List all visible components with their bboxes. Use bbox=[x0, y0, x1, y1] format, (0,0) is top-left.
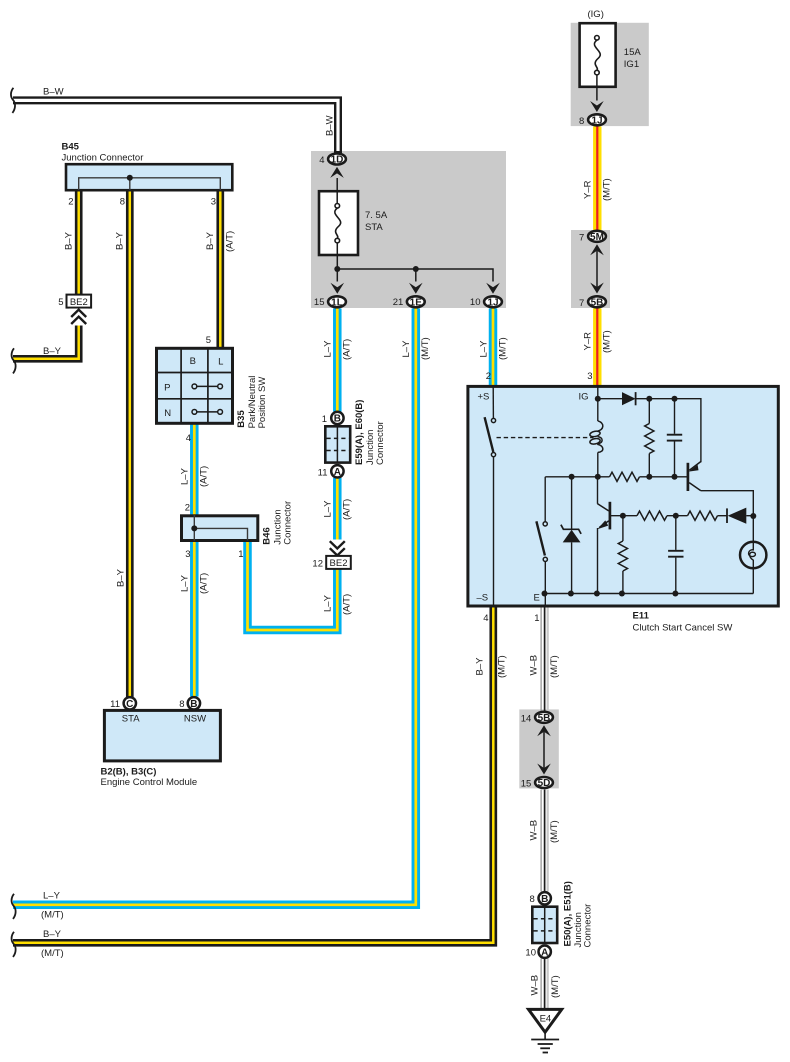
node dot zener bottom bbox=[568, 591, 574, 597]
top rail wire to diode D1 bbox=[598, 398, 622, 400]
connector 1E ellipse bbox=[407, 296, 425, 308]
Q2 collector wire up bbox=[597, 477, 599, 504]
junction dot at fuse output bbox=[334, 266, 340, 272]
ground E4 bbox=[529, 1009, 562, 1039]
svg-text:3: 3 bbox=[185, 549, 190, 560]
wire between R3 and R4 bbox=[667, 515, 688, 517]
connector BE2 pin5 bbox=[67, 295, 92, 308]
connector 1J ellipse bbox=[484, 296, 502, 308]
base rail wire y477 bbox=[545, 476, 609, 478]
svg-text:8: 8 bbox=[530, 894, 535, 905]
B35 contact P row bbox=[192, 384, 223, 389]
node dot C1 bottom bbox=[672, 474, 678, 480]
bottom rail E bbox=[545, 593, 754, 595]
node dot top rail R1 bbox=[646, 396, 652, 402]
svg-text:Engine Control Module: Engine Control Module bbox=[101, 777, 198, 788]
connector 5B ellipse bbox=[588, 296, 606, 308]
junction connector B45 bbox=[66, 164, 232, 190]
svg-text:12: 12 bbox=[312, 558, 323, 569]
svg-text:L–Y: L–Y bbox=[401, 340, 412, 358]
svg-text:A: A bbox=[334, 467, 341, 478]
svg-text:4: 4 bbox=[186, 433, 191, 444]
junction connector B46 bbox=[182, 515, 258, 541]
solid arrow up below 5M bbox=[590, 244, 604, 255]
svg-text:5D: 5D bbox=[538, 778, 551, 789]
svg-text:B–Y: B–Y bbox=[115, 231, 126, 250]
gray background block: IG fuse area bbox=[571, 23, 649, 126]
svg-text:2: 2 bbox=[68, 197, 73, 208]
svg-text:W–B: W–B bbox=[530, 975, 541, 996]
svg-text:Y–R: Y–R bbox=[583, 332, 594, 351]
svg-text:1: 1 bbox=[238, 549, 243, 560]
svg-text:Connector: Connector bbox=[375, 421, 386, 465]
svg-text:(M/T): (M/T) bbox=[549, 820, 560, 843]
wire L-Y(A/T) E59 pinA to BE2 12 chevron bbox=[333, 478, 342, 542]
junction dot inside B45 bbox=[127, 175, 133, 181]
clutch start cancel switch E11 box bbox=[468, 386, 778, 606]
svg-text:B: B bbox=[190, 356, 196, 367]
B46 name label rotated bbox=[261, 501, 293, 545]
svg-text:B–Y: B–Y bbox=[43, 929, 62, 940]
node dot E pin1 bbox=[542, 591, 548, 597]
E11 pin3 IG lead bbox=[597, 386, 599, 399]
B45 name label bbox=[62, 142, 144, 164]
svg-text:1: 1 bbox=[534, 613, 539, 624]
svg-text:2: 2 bbox=[486, 371, 491, 382]
svg-text:8: 8 bbox=[120, 197, 125, 208]
zener diode ZD1 bbox=[561, 477, 581, 594]
svg-text:B–Y: B–Y bbox=[43, 346, 62, 357]
link line 5M to 5B bbox=[596, 251, 598, 287]
svg-text:L: L bbox=[218, 357, 223, 368]
node dot Q2 base bbox=[620, 513, 626, 519]
svg-text:10: 10 bbox=[525, 948, 536, 959]
svg-text:(A/T): (A/T) bbox=[199, 573, 210, 594]
solid arrow down above 5D bbox=[537, 764, 551, 775]
svg-text:W–B: W–B bbox=[529, 655, 540, 676]
node dot C2 bottom bbox=[672, 591, 678, 597]
svg-text:(M/T): (M/T) bbox=[498, 337, 509, 360]
svg-text:IG1: IG1 bbox=[624, 59, 639, 70]
svg-text:(M/T): (M/T) bbox=[602, 330, 613, 353]
node dot Q2 emitter bottom bbox=[594, 591, 600, 597]
-S lead wire bbox=[493, 457, 495, 606]
svg-text:Position SW: Position SW bbox=[257, 377, 268, 429]
svg-text:(IG): (IG) bbox=[588, 9, 604, 20]
svg-text:(M/T): (M/T) bbox=[41, 948, 64, 959]
svg-text:2: 2 bbox=[185, 503, 190, 514]
connector 5B lower ellipse bbox=[535, 712, 553, 724]
E11 name label bbox=[633, 611, 733, 634]
node dot R5 bottom bbox=[619, 591, 625, 597]
svg-text:B46: B46 bbox=[261, 527, 272, 544]
svg-text:10: 10 bbox=[470, 297, 481, 308]
svg-text:8: 8 bbox=[179, 699, 184, 710]
svg-text:C: C bbox=[126, 699, 133, 710]
svg-text:E: E bbox=[534, 593, 540, 604]
svg-text:STA: STA bbox=[122, 714, 140, 725]
svg-text:5B: 5B bbox=[591, 297, 604, 308]
svg-text:(A/T): (A/T) bbox=[199, 466, 210, 487]
svg-text:Connector: Connector bbox=[283, 501, 294, 545]
node dot top rail C1 bbox=[672, 396, 678, 402]
svg-text:15: 15 bbox=[521, 779, 532, 790]
svg-text:Connector: Connector bbox=[583, 904, 594, 948]
svg-text:4: 4 bbox=[483, 613, 488, 624]
svg-text:N: N bbox=[164, 408, 171, 419]
svg-text:B–W: B–W bbox=[325, 115, 336, 136]
relay coil L1 bbox=[589, 399, 602, 477]
svg-text:L–Y: L–Y bbox=[180, 574, 191, 592]
Q2 base rail y516 bbox=[611, 515, 638, 517]
svg-text:(M/T): (M/T) bbox=[549, 655, 560, 678]
svg-text:5B: 5B bbox=[538, 713, 551, 724]
transistor Q1 bbox=[688, 462, 701, 492]
junction connector E50(A),E51(B) bbox=[532, 892, 557, 958]
wire L-Y(A/T) B35 pin4 to B46 pin2 bbox=[190, 424, 199, 516]
svg-text:Junction Connector: Junction Connector bbox=[62, 153, 144, 164]
svg-text:Y–R: Y–R bbox=[583, 180, 594, 199]
connector 1D ellipse bbox=[328, 154, 346, 166]
relay switch SW1 lower contact bbox=[491, 453, 495, 457]
gray background block: 5B/5D connector area bbox=[519, 709, 559, 788]
svg-text:BE2: BE2 bbox=[330, 558, 348, 569]
top rail wire right of D1 bbox=[636, 399, 701, 463]
svg-text:7. 5A: 7. 5A bbox=[365, 210, 388, 221]
node dot C2 top bbox=[673, 513, 679, 519]
ground symbol bars bbox=[531, 1040, 559, 1053]
resistor R3 horizontal bbox=[637, 511, 667, 520]
page-continuation squiggle (B-Y left) bbox=[12, 348, 16, 373]
svg-text:IG: IG bbox=[579, 392, 589, 403]
solid arrow up below 1D bbox=[330, 167, 344, 178]
svg-text:3: 3 bbox=[587, 371, 592, 382]
svg-text:L–Y: L–Y bbox=[479, 340, 490, 358]
svg-text:NSW: NSW bbox=[184, 714, 206, 725]
svg-text:B35: B35 bbox=[236, 410, 247, 428]
E11 pin2 lead bbox=[492, 386, 494, 419]
gray background block: 5M/5B connector area bbox=[571, 230, 610, 308]
svg-text:(A/T): (A/T) bbox=[342, 594, 353, 615]
svg-text:B: B bbox=[334, 414, 341, 425]
resistor R1 horizontal bbox=[610, 472, 640, 481]
junction dot inside B46 bbox=[191, 525, 197, 531]
fuse IG1 value label bbox=[624, 47, 642, 70]
svg-text:E59(A), E60(B): E59(A), E60(B) bbox=[354, 400, 365, 465]
svg-text:B45: B45 bbox=[62, 142, 80, 153]
wire L-Y(A/T) B46 pin3 to ECM pin8 bbox=[190, 541, 199, 697]
svg-text:1E: 1E bbox=[410, 297, 423, 308]
wire B-Y(M/T) E11 pin4 to page-left bbox=[13, 606, 493, 943]
resistor R5 vertical below Q2 base bbox=[618, 516, 627, 594]
svg-text:3: 3 bbox=[211, 197, 216, 208]
clutch switch SW2 bbox=[536, 477, 547, 606]
svg-text:11: 11 bbox=[318, 468, 328, 479]
svg-text:(A/T): (A/T) bbox=[225, 231, 236, 252]
relay switch SW1 blade bbox=[485, 417, 494, 452]
svg-text:15A: 15A bbox=[624, 47, 642, 58]
resistor R2 vertical bbox=[645, 399, 654, 477]
gray background block: STA fuse area bbox=[311, 151, 506, 308]
B35 contact N row bbox=[192, 410, 223, 415]
node dot R2 bottom bbox=[646, 474, 652, 480]
solid arrow down above 1J top bbox=[590, 101, 604, 112]
svg-text:(M/T): (M/T) bbox=[497, 655, 508, 678]
chevron arrow down above BE2 12 bbox=[328, 540, 347, 556]
svg-text:Clutch Start Cancel SW: Clutch Start Cancel SW bbox=[633, 623, 733, 634]
svg-text:5: 5 bbox=[58, 297, 63, 308]
junction connector E59(A),E60(B) bbox=[325, 412, 350, 478]
svg-text:21: 21 bbox=[393, 297, 404, 308]
svg-text:8: 8 bbox=[579, 116, 584, 127]
svg-text:L–Y: L–Y bbox=[180, 467, 191, 485]
svg-text:A: A bbox=[541, 947, 548, 958]
wire W-B(M/T) 5D to E50 pinB bbox=[541, 790, 548, 892]
resistor R4 horizontal bbox=[688, 511, 718, 520]
capacitor C2 bbox=[668, 516, 683, 594]
svg-text:5M: 5M bbox=[590, 232, 604, 243]
svg-text:(M/T): (M/T) bbox=[41, 910, 64, 921]
wire L-Y(M/T) 1J to E11 pin2 bbox=[489, 309, 498, 387]
fuse STA value label bbox=[365, 210, 388, 233]
node dot zener branch bbox=[569, 474, 575, 480]
page-continuation squiggle (B-W) bbox=[11, 88, 15, 113]
svg-text:7: 7 bbox=[579, 298, 584, 309]
connector 5D ellipse bbox=[535, 777, 553, 789]
junction node line under fuse STA bbox=[337, 269, 493, 282]
connector 5M ellipse bbox=[588, 231, 606, 243]
svg-text:W–B: W–B bbox=[529, 820, 540, 841]
engine control module B2(B),B3(C) bbox=[104, 697, 220, 761]
solid arrow down above 1E bbox=[409, 283, 423, 294]
page-continuation squiggle (L-Y M/T) bbox=[12, 894, 16, 919]
wire L-Y(A/T) B46 pin1 to BE2 12 bbox=[248, 541, 338, 631]
svg-text:11: 11 bbox=[110, 699, 120, 710]
wire B-Y B45 pin2 to BE2 bbox=[75, 190, 83, 295]
junction dot at 1E branch bbox=[413, 266, 419, 272]
E50/E51 name label rotated bbox=[563, 881, 594, 947]
svg-text:(A/T): (A/T) bbox=[342, 499, 353, 520]
indicator lamp LP1 bbox=[740, 516, 766, 594]
connector BE2 pin12 bbox=[326, 556, 351, 569]
svg-text:L–Y: L–Y bbox=[323, 500, 334, 518]
svg-text:4: 4 bbox=[319, 155, 324, 166]
wire R4 to diode D2 bbox=[718, 515, 728, 517]
svg-text:1J: 1J bbox=[591, 115, 602, 126]
diode D1 bbox=[622, 392, 636, 405]
svg-text:B–Y: B–Y bbox=[64, 231, 75, 250]
ECM name label bbox=[101, 767, 198, 788]
base rail wire to Q1 bbox=[640, 476, 688, 478]
svg-text:B–Y: B–Y bbox=[205, 231, 216, 250]
solid arrow down above 5B bbox=[590, 283, 604, 294]
svg-text:1J: 1J bbox=[487, 297, 498, 308]
svg-text:–S: –S bbox=[477, 593, 489, 604]
fuse 7.5A STA bbox=[319, 178, 358, 269]
svg-text:1L: 1L bbox=[331, 297, 343, 308]
wire W-B(M/T) E50 pinA to ground E4 bbox=[541, 959, 548, 1010]
wire W-B(M/T) E11 pin1 to 5B bbox=[541, 606, 548, 712]
node dot coil bottom bbox=[595, 474, 601, 480]
svg-text:P: P bbox=[164, 383, 170, 394]
svg-text:1D: 1D bbox=[331, 155, 344, 166]
svg-text:B–W: B–W bbox=[43, 86, 64, 97]
dashed actuation link bbox=[497, 437, 594, 439]
Q2 emitter wire down bbox=[597, 528, 599, 594]
svg-text:(M/T): (M/T) bbox=[550, 975, 561, 998]
solid arrow down above 1J bbox=[486, 283, 500, 294]
svg-text:L–Y: L–Y bbox=[323, 340, 334, 358]
svg-text:(M/T): (M/T) bbox=[420, 337, 431, 360]
park/neutral position switch B35 bbox=[157, 348, 233, 424]
wire B-Y B45 pin8 to ECM pin11 bbox=[126, 190, 134, 697]
transistor Q2 bbox=[597, 502, 610, 530]
svg-text:E11: E11 bbox=[633, 611, 650, 622]
E59/E60 name label rotated bbox=[354, 400, 386, 465]
connector 1J top ellipse bbox=[588, 114, 606, 126]
wire L-Y(M/T) 1E to page-left bbox=[13, 309, 416, 905]
svg-text:+S: +S bbox=[478, 392, 490, 403]
svg-text:(A/T): (A/T) bbox=[342, 339, 353, 360]
connector 1L ellipse bbox=[328, 296, 346, 308]
svg-text:B: B bbox=[541, 894, 548, 905]
svg-text:E4: E4 bbox=[540, 1014, 552, 1025]
svg-text:L–Y: L–Y bbox=[43, 891, 61, 902]
diode D2 pointing left bbox=[727, 508, 753, 524]
svg-text:BE2: BE2 bbox=[70, 297, 88, 308]
node dot lamp top bbox=[750, 513, 756, 519]
svg-text:1: 1 bbox=[322, 414, 327, 425]
svg-text:B–Y: B–Y bbox=[116, 568, 127, 587]
Q1 emitter wire down to diode row bbox=[701, 491, 753, 516]
fuse 15A IG1 bbox=[580, 23, 616, 100]
wire B-Y(A/T) B45 pin3 to B35 pin5 bbox=[216, 190, 224, 348]
svg-text:15: 15 bbox=[314, 297, 325, 308]
svg-text:L–Y: L–Y bbox=[323, 594, 334, 612]
wire L-Y(A/T) 1L to E59 pinB bbox=[333, 309, 342, 412]
svg-text:7: 7 bbox=[579, 232, 584, 243]
wire B-Y below BE2 to page-left bbox=[13, 326, 79, 359]
wire B-W from page-left to fuse 1D bbox=[13, 100, 338, 153]
solid arrow up below 5B lower bbox=[537, 725, 551, 736]
relay switch SW1 upper contact bbox=[491, 418, 495, 422]
wire Y-R(M/T) 1J fuse to 5M bbox=[593, 127, 601, 232]
svg-text:B: B bbox=[190, 699, 197, 710]
page-continuation squiggle (B-Y M/T) bbox=[12, 932, 16, 957]
svg-text:B–Y: B–Y bbox=[475, 657, 486, 676]
svg-text:5: 5 bbox=[206, 335, 211, 346]
solid arrow down above 1L bbox=[331, 283, 345, 294]
B35 name label rotated bbox=[236, 376, 268, 429]
wire Y-R(M/T) 5B to E11 pin3 bbox=[593, 309, 601, 387]
svg-text:STA: STA bbox=[365, 222, 383, 233]
svg-text:(M/T): (M/T) bbox=[602, 178, 613, 201]
capacitor C1 bbox=[667, 399, 682, 477]
link line 5B to 5D bbox=[543, 732, 545, 768]
chevron arrow up below BE2 bbox=[69, 309, 88, 326]
svg-text:14: 14 bbox=[521, 713, 532, 724]
node IG dot bbox=[595, 396, 601, 402]
